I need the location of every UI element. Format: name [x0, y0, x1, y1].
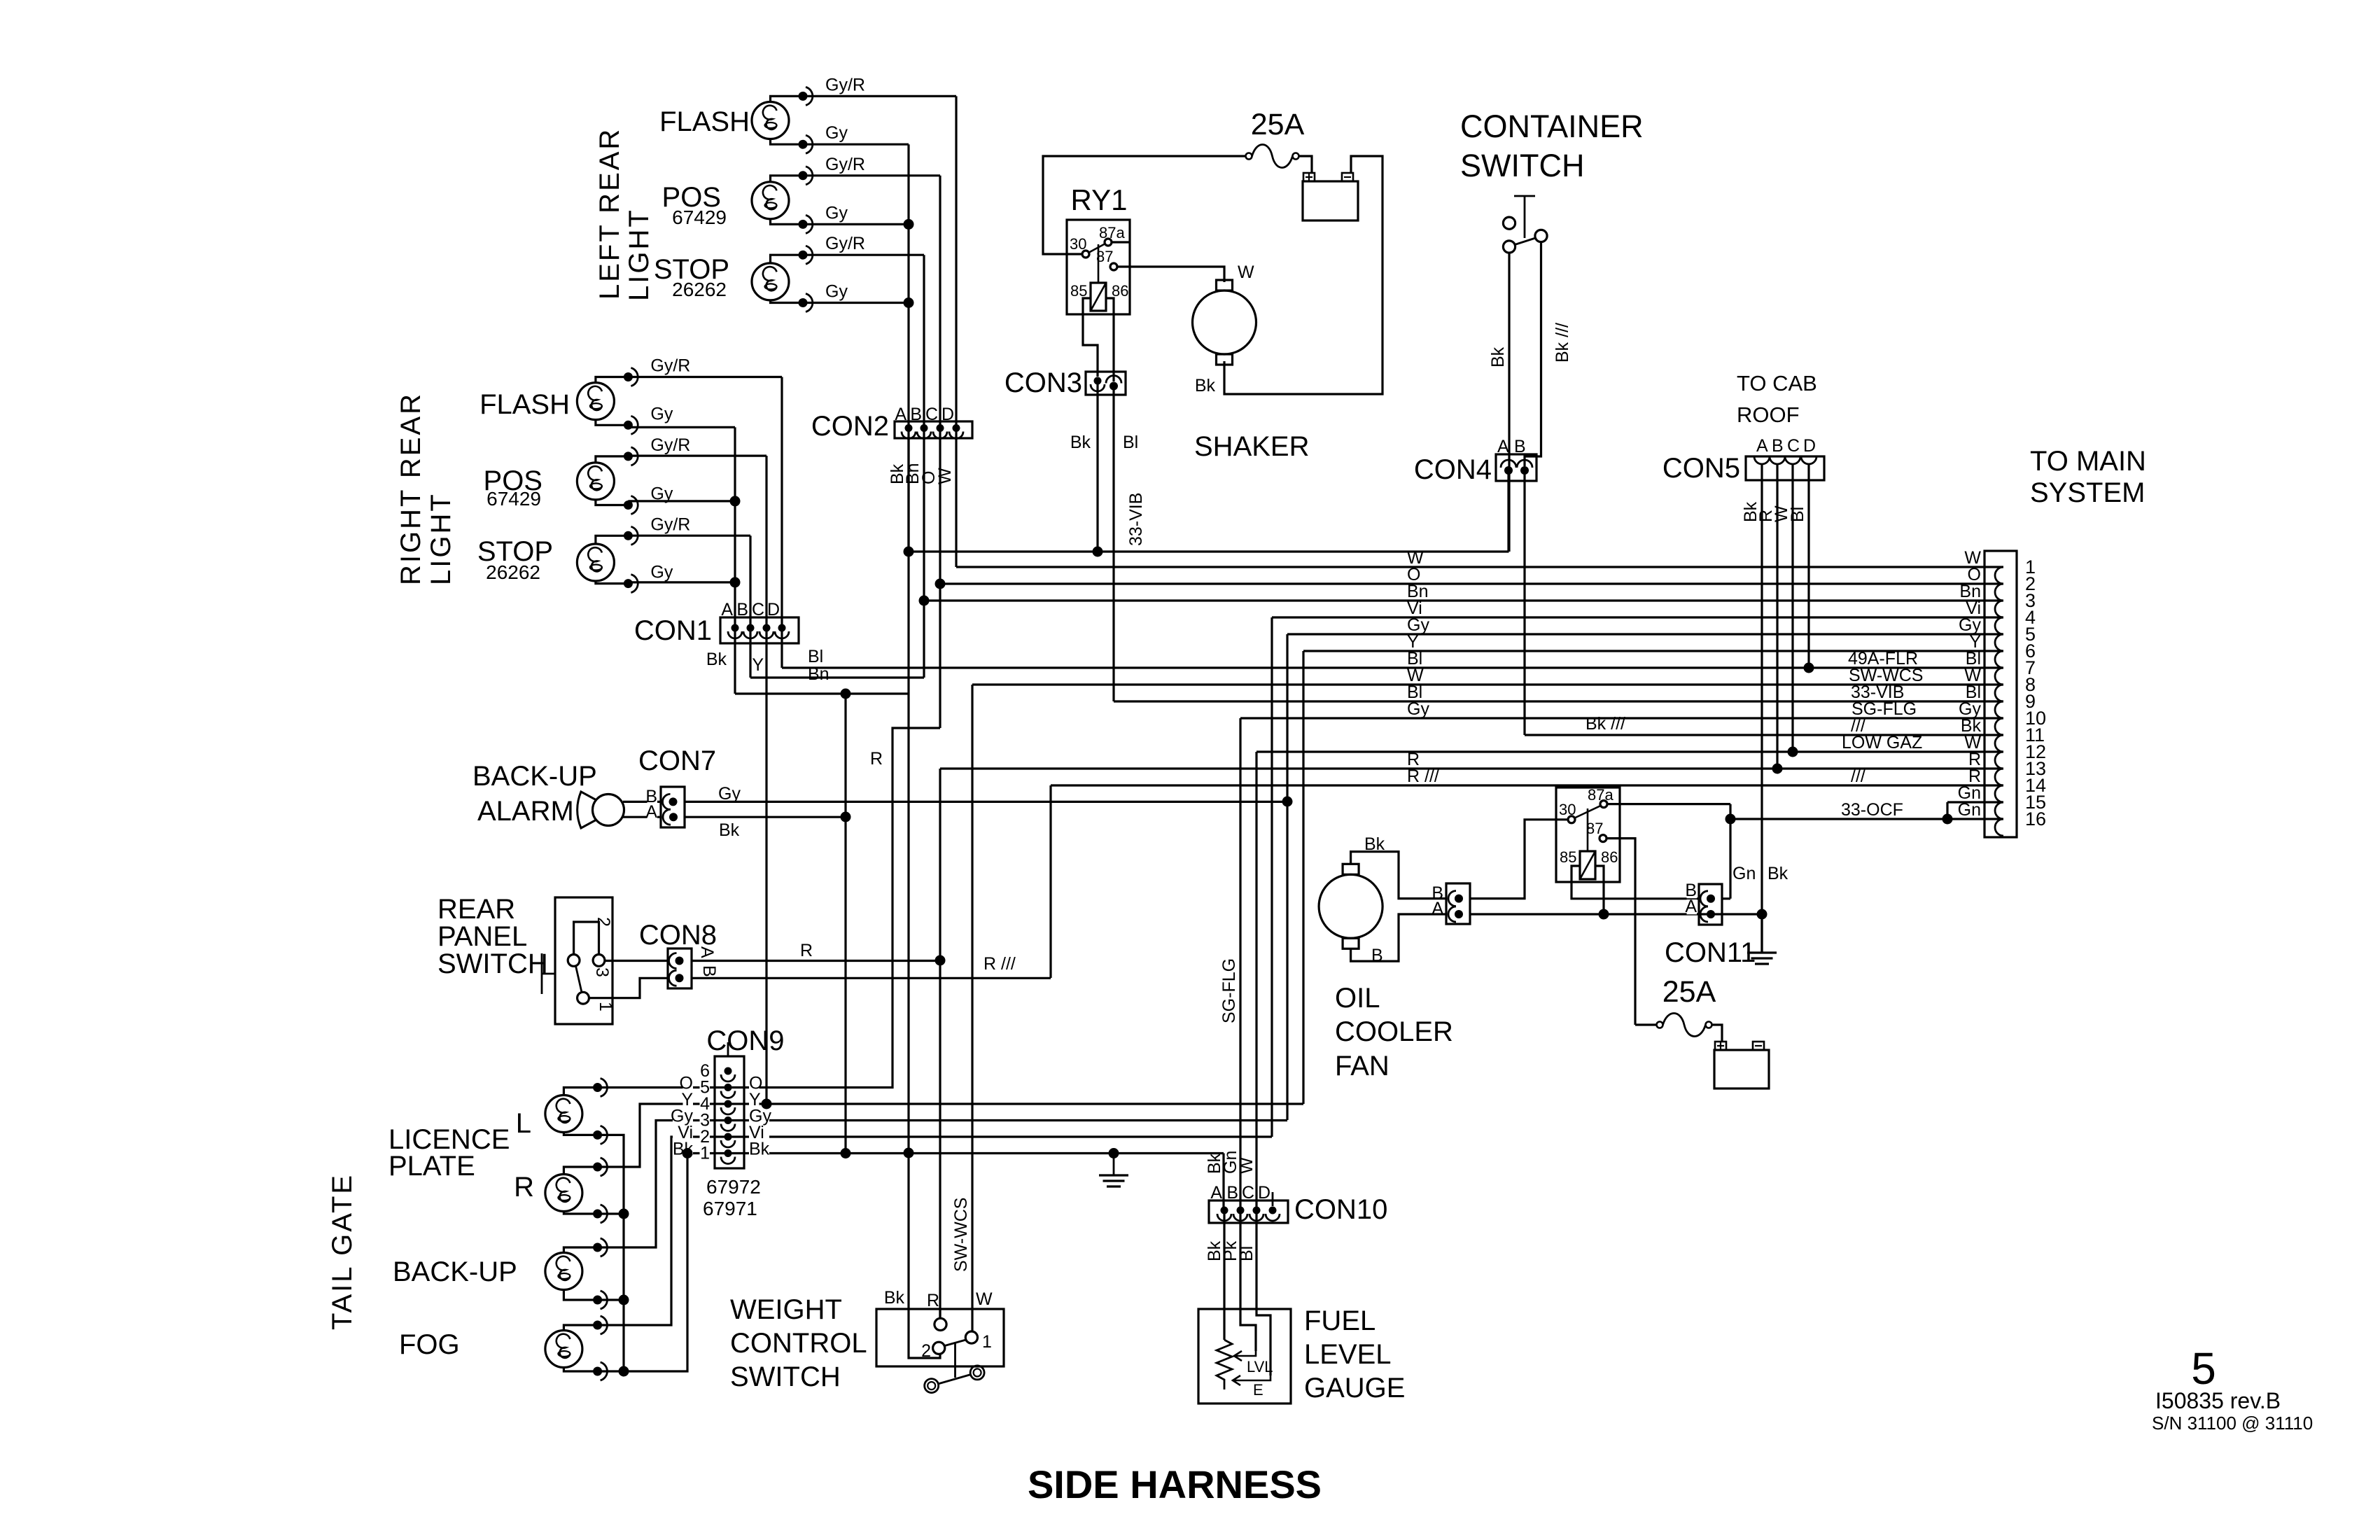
wire gauge LVL internal [1240, 1309, 1256, 1351]
wire R riser row13 to weight switch [939, 769, 941, 1318]
bulb fog [545, 1331, 582, 1368]
wire O CON9-5 to CON2-C jog [728, 728, 940, 1088]
wire licence R top [563, 1167, 597, 1175]
svg-text:FLASH: FLASH [479, 389, 570, 420]
svg-text:RIGHT REAR: RIGHT REAR [395, 392, 426, 585]
svg-text:BACK-UP: BACK-UP [472, 761, 597, 792]
wire CON2 A riser (Gy common) [907, 144, 909, 428]
terminal right POS Gy [624, 496, 638, 514]
wire Bl CON3-B down to row 9 [1112, 386, 1114, 701]
gauge FUEL LEVEL box [1198, 1309, 1291, 1403]
wire Gy STOP-left to junction [803, 302, 909, 304]
svg-text:Gy/R: Gy/R [825, 75, 865, 94]
svg-text:Bl: Bl [1788, 507, 1807, 522]
terminal left FLASH Gy [799, 135, 813, 153]
wire CON2 D riser [955, 96, 957, 428]
svg-text:SWITCH: SWITCH [437, 948, 548, 979]
svg-text:D: D [767, 600, 780, 619]
pin main 8 [1995, 685, 2003, 701]
terminal right STOP Gy [624, 575, 638, 593]
horn BACK-UP ALARM [593, 794, 624, 826]
stub CON10 pin D [1272, 1192, 1274, 1206]
wire RY1 87 to shaker [1117, 267, 1224, 282]
deferred labels with knockout [647, 790, 658, 804]
wire back-up top [563, 1247, 597, 1253]
pin CON10 C [1249, 1207, 1263, 1221]
connector CON1 [720, 617, 799, 643]
svg-text:Gy/R: Gy/R [650, 435, 690, 455]
pin relay2 87 [1599, 835, 1606, 842]
wire relay2 87a to Gn riser [1607, 803, 1730, 805]
wire B fan to conn A [1351, 914, 1446, 961]
junction rail fog [619, 1366, 629, 1377]
wire bulb ground rail [598, 1135, 624, 1371]
svg-text:B: B [1371, 946, 1383, 965]
svg-text:1: 1 [700, 1144, 710, 1163]
wire CON2 C riser [939, 176, 941, 428]
svg-text:SYSTEM: SYSTEM [2030, 477, 2145, 508]
svg-text:CON1: CON1 [634, 615, 712, 646]
svg-text:SHAKER: SHAKER [1194, 431, 1310, 462]
svg-text:SWITCH: SWITCH [730, 1361, 841, 1392]
blade container switch [1515, 238, 1536, 245]
wire row 2 to main connector [940, 582, 2003, 584]
wire CON1 C riser [765, 456, 767, 628]
svg-text:A: A [1210, 1183, 1222, 1203]
svg-text:Gy/R: Gy/R [825, 234, 865, 253]
switch WEIGHT CONTROL box [876, 1309, 1004, 1366]
wire Bk fan to conn B [1351, 852, 1446, 899]
svg-text:3: 3 [592, 967, 612, 977]
terminal left POS Gy/R [799, 167, 813, 185]
svg-text:26262: 26262 [672, 279, 727, 300]
wire Bn CON2-B down [923, 428, 925, 678]
pin CON10 B [1233, 1207, 1247, 1221]
svg-text:Bk ///: Bk /// [1585, 714, 1625, 734]
relay RY1 [1067, 220, 1130, 314]
svg-text:C: C [752, 600, 764, 619]
wire right STOP to bottom terminal [596, 581, 629, 584]
junction R riser / CON8-A wire [935, 955, 946, 966]
svg-text:FLASH: FLASH [659, 106, 750, 137]
svg-text:C: C [1787, 436, 1800, 456]
wire Bk horizontal [735, 692, 909, 694]
svg-text:SW-WCS: SW-WCS [951, 1198, 971, 1272]
coil RY1 [1091, 283, 1106, 311]
svg-text:R: R [927, 1291, 939, 1310]
junction Bk CON3-A [1093, 547, 1103, 557]
wire Bl CON10-C to gauge [1255, 1210, 1257, 1309]
wire row 15 to main connector [1947, 801, 2003, 803]
svg-text:Y: Y [752, 655, 764, 675]
connector CON3 [1086, 372, 1126, 395]
pin CON2 A [902, 424, 916, 439]
wire Gy CON7-B to Gy riser [685, 801, 1287, 803]
svg-text:Gy: Gy [650, 404, 673, 423]
wire fog top [563, 1325, 597, 1331]
junction Y CON1-C riser [762, 1099, 772, 1109]
wire rear panel 1 to CON8-B [589, 978, 668, 997]
terminal fog bottom [593, 1362, 607, 1380]
wire CON11-B to Gn riser [1722, 897, 1730, 899]
wire Vi CON9-2 to Vi riser [728, 1135, 1272, 1137]
svg-text:Gn: Gn [1732, 864, 1756, 883]
pin CON9 1 [721, 1149, 735, 1164]
wire R/// CON8-B to riser [692, 977, 1051, 979]
wire rail to Bk line [624, 1154, 687, 1372]
wire right POS to top terminal [596, 456, 629, 463]
svg-text:Gy: Gy [650, 563, 673, 582]
wire CON1 B riser [749, 535, 751, 628]
svg-text:W: W [935, 468, 955, 484]
svg-text:1: 1 [596, 1002, 615, 1011]
svg-text:Bl: Bl [808, 647, 823, 666]
svg-text:FUEL: FUEL [1304, 1305, 1375, 1336]
pin CON4 A [1501, 460, 1516, 475]
terminal left FLASH Gy/R [799, 87, 813, 105]
pin main 14 [1995, 785, 2003, 802]
terminal right POS Gy/R [624, 447, 638, 465]
wire RY1 30 to fuse [1043, 156, 1246, 254]
svg-text:CONTAINER: CONTAINER [1460, 108, 1644, 144]
wire left FLASH to bottom terminal [771, 139, 804, 145]
pin main 7 [1995, 668, 2003, 685]
wire relay2 85 to CON11-B [1571, 866, 1700, 899]
svg-text:A: A [1497, 437, 1509, 456]
svg-text:Bk: Bk [706, 650, 727, 669]
svg-text:A: A [895, 405, 906, 424]
wire row 3 to main connector [924, 599, 2003, 601]
svg-text:COOLER: COOLER [1335, 1016, 1453, 1047]
junction row16 Gn / row15 [1942, 814, 1953, 825]
pin main 11 [1995, 735, 2003, 752]
svg-text:CON9: CON9 [706, 1025, 784, 1056]
connector TO MAIN SYSTEM 16-pin [1984, 551, 2017, 837]
svg-text:A: A [1431, 899, 1443, 918]
arrow LVL [1234, 1351, 1256, 1361]
junction rail back-up [619, 1295, 629, 1305]
wire relay2 armature to coil [1587, 808, 1589, 851]
wire back-up bottom to rail [598, 1298, 624, 1301]
wire RY1 armature to coil [1098, 244, 1100, 283]
terminal back-up bottom [593, 1291, 607, 1309]
svg-text:W: W [1237, 1157, 1256, 1174]
battery B1 [1303, 173, 1358, 220]
wire row 13 to main connector [940, 767, 2003, 769]
pin CON10 A [1217, 1207, 1231, 1221]
wire left POS to bottom terminal [771, 219, 804, 225]
wire Bk ground to CON10-A [1222, 1154, 1224, 1211]
svg-text:Bk: Bk [1195, 376, 1216, 395]
svg-text:L: L [516, 1108, 531, 1139]
contact container NC [1503, 217, 1515, 229]
bulb left FLASH [752, 102, 789, 139]
terminal right FLASH Gy [624, 416, 638, 434]
wire Bk/// container to CON4-B [1525, 242, 1541, 466]
wire row 16 to main connector [1730, 818, 2003, 820]
svg-text:OIL: OIL [1335, 983, 1380, 1014]
junction row13 R / CON5-B [1772, 764, 1783, 774]
wire row 8 to main connector [972, 683, 2003, 685]
pin CON7 A [663, 809, 678, 825]
svg-text:LIGHT: LIGHT [624, 208, 654, 301]
svg-text:Gy: Gy [718, 784, 741, 804]
svg-text:B: B [1514, 437, 1526, 456]
svg-text:ALARM: ALARM [477, 796, 574, 827]
wire Bk CON7-A to Bk riser [685, 816, 846, 818]
wire relay2 86 to CON11-A line [1595, 866, 1604, 914]
stub CON9 pin 6 [727, 1042, 729, 1056]
svg-text:Bk: Bk [1070, 433, 1091, 452]
svg-text:R ///: R /// [1407, 766, 1439, 786]
wire CON2 B riser [923, 255, 925, 428]
svg-text:R: R [870, 749, 883, 769]
wire Gy/R POS-right to CON1 C [628, 454, 766, 456]
svg-text:25A: 25A [1251, 108, 1305, 141]
wire Gy POS-left to junction [803, 223, 909, 225]
pin CON10 D [1266, 1207, 1280, 1221]
wire Bk CON2-A down [907, 428, 909, 694]
pin CON1 D [775, 624, 789, 639]
svg-text:RY1: RY1 [1071, 183, 1128, 216]
horn bell [577, 792, 596, 828]
svg-text:FOG: FOG [399, 1329, 460, 1360]
svg-text:A: A [721, 600, 733, 619]
fuse 25A bottom [1657, 1014, 1712, 1037]
bulb right POS [577, 463, 614, 500]
svg-text:86: 86 [1601, 848, 1618, 866]
wire O CON2-C down [939, 428, 941, 728]
pin main 16 [1995, 819, 2003, 836]
wire horn to CON7-B [623, 801, 661, 803]
wire W inside weight switch [971, 1309, 973, 1331]
wire Pk CON10-B to gauge [1239, 1210, 1241, 1309]
svg-text:Gy/R: Gy/R [650, 514, 690, 534]
svg-text:33-OCF: 33-OCF [1841, 800, 1903, 820]
svg-text:SIDE HARNESS: SIDE HARNESS [1028, 1462, 1322, 1506]
svg-text:D: D [941, 405, 954, 424]
wire back-up bottom [563, 1290, 597, 1301]
contact weight 1 [965, 1331, 977, 1343]
pin CON5 D [1801, 456, 1816, 464]
wire fuse2 to battery2 + [1712, 1025, 1723, 1042]
coil relay2 [1580, 851, 1595, 879]
wire W CON2-D down to row 1 [955, 428, 957, 567]
svg-text:Gy/R: Gy/R [650, 356, 690, 376]
pin CON9 4 [721, 1100, 735, 1115]
svg-text:CON5: CON5 [1662, 453, 1740, 484]
svg-text:CON10: CON10 [1294, 1194, 1387, 1225]
contact rear panel 2-common [568, 955, 580, 967]
svg-text:Gn: Gn [1958, 800, 1981, 820]
wire horn to CON7-A [623, 816, 661, 818]
svg-text:A: A [645, 802, 657, 822]
wire row 5 to main connector [1287, 633, 2003, 635]
wire Y CON9-4 to Y riser [728, 1102, 1303, 1105]
pin CON9 3 [721, 1116, 735, 1131]
wire fuse to battery1 + [1299, 156, 1312, 173]
coil RY1 diagonal [1091, 283, 1106, 311]
svg-text:Bl: Bl [1123, 433, 1138, 452]
terminal left STOP Gy/R [799, 246, 813, 264]
junction Bk CON11-A [1757, 909, 1767, 920]
junction Bk CON2-A riser [904, 547, 914, 557]
wire Bl CON5-D down to row 7 [1807, 464, 1809, 668]
pin CON4 B [1517, 460, 1532, 475]
svg-text:Gy: Gy [1407, 699, 1429, 719]
wire gauge E internal [1256, 1309, 1270, 1375]
svg-text:W: W [1238, 262, 1254, 282]
wire right STOP to top terminal [596, 535, 629, 544]
wire left FLASH to top terminal [771, 96, 804, 101]
wire Gy STOP-right to junction [628, 581, 735, 583]
pin relay2 87a [1600, 801, 1607, 808]
wire fog bottom [563, 1368, 597, 1372]
svg-text:Gy: Gy [825, 123, 848, 143]
bulb right STOP [577, 544, 614, 581]
wire W CON5-C down to row 12 [1791, 464, 1793, 752]
svg-text:1: 1 [982, 1332, 992, 1352]
junction Gy riser / CON7-B [1282, 797, 1293, 807]
wire Gy CON9-3 to Gy riser [728, 1119, 1287, 1121]
pin main 13 [1995, 769, 2003, 785]
pin CON1 C [759, 624, 773, 639]
switch REAR PANEL box [555, 897, 612, 1024]
pin main 1 [1995, 567, 2003, 584]
container switch lever [1524, 196, 1526, 238]
svg-text:25A: 25A [1662, 975, 1716, 1009]
rear panel actuator stem [542, 973, 555, 975]
wire Bl CON1-D down to row 7 [780, 628, 783, 668]
wire Bk riser CON2A down to weight switch [907, 694, 909, 1309]
wire R inside weight switch [939, 1309, 941, 1318]
wire Gn riser CON10-B to row 10 [1239, 718, 1241, 1210]
toggle circle left [925, 1379, 939, 1393]
connector CON9 [715, 1056, 744, 1168]
svg-text:Gy: Gy [825, 282, 848, 302]
pin main 9 [1995, 701, 2003, 718]
svg-text:67972: 67972 [706, 1176, 761, 1198]
svg-text:Bk: Bk [1488, 346, 1508, 367]
wire fan B to relay 30 [1470, 820, 1568, 899]
junction Gy STOP-left [904, 297, 914, 308]
toggle circle right [970, 1366, 984, 1380]
terminal left STOP Gy [799, 294, 813, 312]
svg-text:LEVEL: LEVEL [1304, 1339, 1392, 1370]
pin main 6 [1995, 651, 2003, 668]
junction Bk riser / ground line [904, 1148, 914, 1158]
relay oil cooler fan [1556, 787, 1620, 882]
svg-text:33-VIB: 33-VIB [1126, 493, 1146, 546]
bulb left POS [752, 182, 789, 219]
wire Gy/R STOP-right to CON1 B [628, 535, 750, 537]
wire battery1 - to shaker [1224, 156, 1382, 394]
wire Bn CON1-B down [749, 628, 751, 678]
wire Y riser CON9-4 to row 6 [1302, 651, 1304, 1104]
svg-text:Bk ///: Bk /// [1553, 323, 1572, 363]
wire Gy riser CON9-3 to row 5 [1286, 634, 1288, 1120]
wire Gy CON9-3 to back-up bulb [598, 1121, 728, 1248]
svg-text:CONTROL: CONTROL [730, 1328, 867, 1359]
wire right FLASH to bottom terminal [596, 420, 629, 426]
wire Bk ground line [687, 1152, 1224, 1154]
wire Gy/R POS-left to CON2 C [803, 174, 940, 176]
junction ground symbol [1109, 1148, 1119, 1158]
resistor fuel gauge [1217, 1340, 1232, 1389]
svg-text:D: D [1803, 436, 1816, 456]
svg-text:TO CAB: TO CAB [1737, 371, 1817, 395]
wire left STOP to top terminal [771, 255, 804, 263]
svg-text:85: 85 [1560, 848, 1576, 866]
wire row 12 to main connector [1256, 750, 2003, 752]
pin CON5 B [1770, 456, 1785, 464]
motor OIL COOLER FAN [1319, 864, 1382, 948]
junction Bk riser [841, 689, 851, 699]
wire Bk CON1-A down [734, 628, 736, 694]
pin main 10 [1995, 718, 2003, 735]
svg-text:Bk: Bk [884, 1288, 905, 1308]
svg-text:A: A [697, 946, 717, 958]
svg-text:67429: 67429 [672, 206, 727, 228]
svg-text:C: C [925, 405, 938, 424]
terminal licence L top [593, 1079, 607, 1097]
junction relay2 86 / CON11-A line [1599, 909, 1609, 920]
wire R bulb bottom to rail [598, 1212, 624, 1214]
pin main 15 [1995, 802, 2003, 819]
wire row 1 to main connector [956, 566, 2003, 568]
wire row 6 to main connector [1303, 650, 2003, 652]
wire Gn riser 87a to CON11-B [1729, 804, 1731, 899]
pin relay2 30 [1568, 816, 1575, 823]
wire RY1 86 to CON3-B [1106, 298, 1114, 381]
pin CON1 A [728, 624, 742, 639]
wire ground stem [1113, 1154, 1115, 1176]
connector CON10 [1209, 1200, 1288, 1223]
blade weight switch [945, 1340, 966, 1346]
pin RY1 87 [1110, 263, 1117, 270]
wire W riser CON10-C to row 12 [1255, 752, 1257, 1210]
pin CON8 B [669, 970, 684, 986]
pin CON11 B [1700, 891, 1715, 906]
junction row12 W / CON5-C [1788, 747, 1798, 757]
wire relay2 87 to fuse 2 [1606, 839, 1635, 1025]
junction row2 O / CON2-C [935, 579, 946, 589]
connector CON8 [668, 948, 692, 988]
pin CON9 2 [721, 1133, 735, 1148]
contact container common [1503, 241, 1515, 253]
junction Gy POS-left [904, 219, 914, 230]
pin CON9 5 [721, 1084, 735, 1098]
bulb right FLASH [577, 383, 614, 420]
wire Bk CON3-A down [1096, 381, 1098, 552]
wire row 7 to main connector [782, 666, 2003, 668]
terminal fog top [593, 1316, 607, 1334]
pin CON3 B [1106, 376, 1121, 391]
svg-text:TAIL GATE: TAIL GATE [327, 1173, 358, 1330]
svg-text:BACK-UP: BACK-UP [393, 1256, 517, 1287]
arrow E [1233, 1375, 1270, 1385]
svg-text:ROOF: ROOF [1737, 402, 1800, 427]
wire Y CON9-4 to licence R [598, 1104, 728, 1167]
svg-text:R: R [514, 1172, 534, 1203]
blade RY1 30-87a [1088, 244, 1105, 253]
wire row 14 to main connector [1051, 784, 2003, 786]
junction Bk CON7-A [841, 812, 851, 822]
pin main 2 [1995, 584, 2003, 601]
wire Bk container to CON4-A [1508, 253, 1510, 552]
wire R CON5-B down to row 13 [1776, 464, 1778, 769]
wire Bk CON10-A to gauge [1223, 1210, 1225, 1309]
